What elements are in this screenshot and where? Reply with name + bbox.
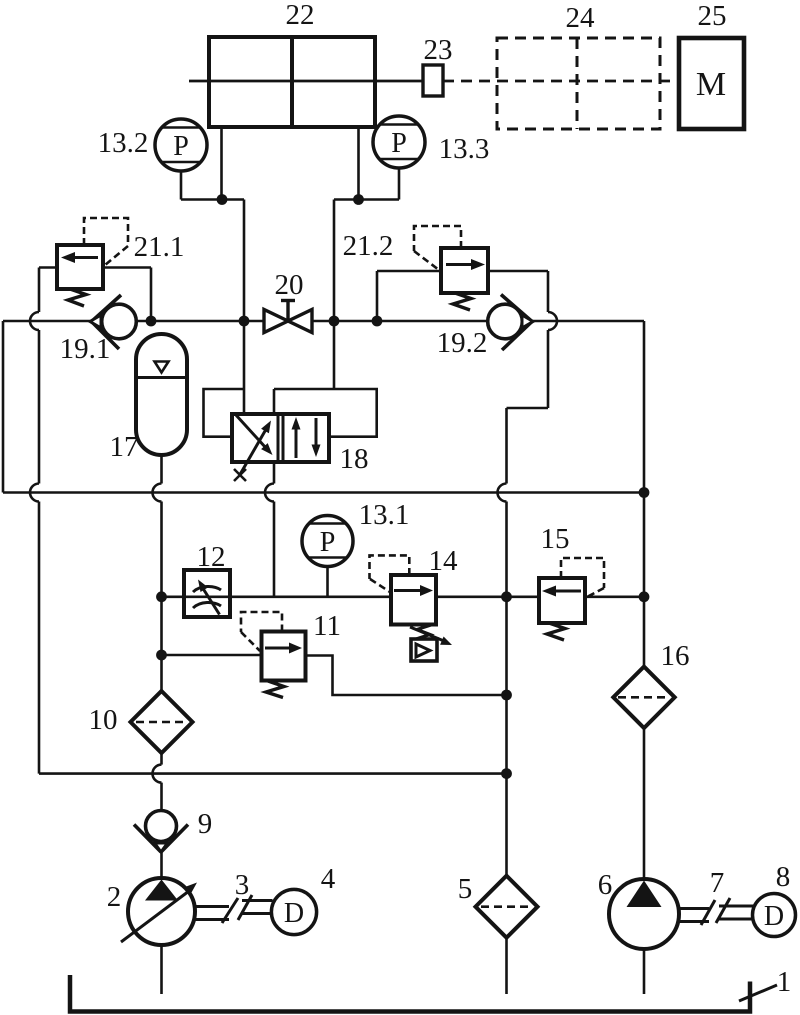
wire cylinder right port to valve 18 port B <box>274 127 359 414</box>
svg-text:13.1: 13.1 <box>359 499 410 531</box>
node bus-right <box>639 591 650 602</box>
svg-text:19.2: 19.2 <box>437 327 488 359</box>
wire bus to valve 11 <box>162 654 262 657</box>
svg-text:D: D <box>284 898 304 929</box>
wire valve 18 right side loop <box>329 389 377 437</box>
svg-text:5: 5 <box>458 873 473 905</box>
svg-text:22: 22 <box>286 0 315 31</box>
shutoff valve 20 <box>264 301 312 333</box>
svg-text:12: 12 <box>197 541 226 573</box>
relief valve 11 <box>262 632 306 698</box>
check valve 9 <box>134 811 188 879</box>
node 11-right <box>501 690 512 701</box>
svg-text:3: 3 <box>235 869 250 901</box>
svg-text:16: 16 <box>661 640 690 672</box>
svg-text:M: M <box>696 66 726 103</box>
check valve 19.2 <box>488 295 533 351</box>
pressure gauge 13.2 <box>155 119 222 200</box>
pilot line 21.1 (dashed) <box>84 218 128 265</box>
wire cylinder left port to valve 18 port A <box>222 127 245 414</box>
svg-text:25: 25 <box>698 0 727 32</box>
svg-text:9: 9 <box>198 808 213 840</box>
throttle valve 12 <box>184 570 230 617</box>
pilot line 11 (dashed) <box>241 612 282 651</box>
svg-text:P: P <box>391 128 407 159</box>
drive motor 8 <box>753 894 796 937</box>
shaft 3 <box>195 895 273 923</box>
svg-text:D: D <box>764 901 784 932</box>
accumulator 17 <box>136 334 187 455</box>
svg-text:6: 6 <box>598 869 613 901</box>
node lower-bus-right <box>501 768 512 779</box>
svg-text:13.2: 13.2 <box>98 127 149 159</box>
svg-text:20: 20 <box>275 269 304 301</box>
left frame wire <box>2 321 5 493</box>
pressure gauge 13.3 <box>359 116 426 200</box>
return bus (middle) <box>3 491 644 494</box>
wire valve 18 left side loop <box>204 389 245 437</box>
drive motor 4 <box>271 889 316 934</box>
svg-text:14: 14 <box>429 545 459 577</box>
proportional relief valve 14 <box>391 575 452 661</box>
svg-text:1: 1 <box>777 966 792 998</box>
main bus (upper) <box>3 320 644 323</box>
wire 21.2 right port down to pump column <box>488 271 557 408</box>
closed port marker x <box>234 469 246 481</box>
wire accumulator stem / pump 2 column <box>153 455 162 811</box>
wire valve 11 right port to middle column <box>306 656 507 696</box>
directional valve 18 <box>232 414 329 475</box>
variable pump 2 <box>121 878 197 994</box>
node A1 <box>217 194 228 205</box>
cylinder 22 <box>189 37 423 127</box>
shaft 7 <box>679 898 754 925</box>
wire 21.1 left port down to return bus <box>30 268 57 774</box>
svg-text:21.1: 21.1 <box>134 231 185 263</box>
svg-text:23: 23 <box>424 34 453 66</box>
node B1 <box>353 194 364 205</box>
pump 6 <box>609 879 679 949</box>
wire 21.2 left port to bus <box>377 271 441 321</box>
node bus-left <box>156 591 167 602</box>
relief valve 21.1 <box>57 245 103 306</box>
wire right column <box>643 321 646 994</box>
svg-text:2: 2 <box>107 881 122 913</box>
wire valve 18 bottom port down to valve bus <box>265 462 274 597</box>
wire 21.1 right port to bus <box>103 268 151 322</box>
node return-right <box>639 487 650 498</box>
node 21.1-bus <box>146 316 157 327</box>
svg-text:4: 4 <box>321 863 336 895</box>
svg-text:P: P <box>173 131 189 162</box>
node cyl-right on bus <box>329 316 340 327</box>
filter 10 <box>131 691 193 753</box>
svg-text:11: 11 <box>313 610 341 642</box>
svg-text:13.3: 13.3 <box>439 133 490 165</box>
pilot line 15 (dashed) <box>561 558 604 597</box>
check valve 19.1 <box>90 295 136 349</box>
node cyl-left on bus <box>239 316 250 327</box>
node 11-left <box>156 650 167 661</box>
tank 1 <box>70 975 777 1012</box>
svg-text:15: 15 <box>541 523 570 555</box>
node 21.2-bus <box>372 316 383 327</box>
svg-text:10: 10 <box>89 704 118 736</box>
pressure gauge 13.1 <box>302 516 353 597</box>
svg-text:7: 7 <box>710 867 725 899</box>
relief valve 21.2 <box>441 248 488 310</box>
wire middle pump column <box>498 408 507 994</box>
relief valve 15 <box>539 578 585 640</box>
svg-text:8: 8 <box>776 861 791 893</box>
coupling 23 <box>423 65 443 96</box>
valve bus (through 12,14,15) <box>162 595 645 598</box>
pilot line 21.2 (dashed) <box>414 226 461 270</box>
lower return bus <box>39 772 507 775</box>
svg-text:19.1: 19.1 <box>60 333 111 365</box>
svg-text:18: 18 <box>340 443 369 475</box>
motor M 25 <box>679 38 744 129</box>
dashed shaft line <box>443 80 679 83</box>
filter 5 <box>476 876 538 938</box>
pilot line 14 (dashed) <box>370 555 410 592</box>
svg-text:21.2: 21.2 <box>343 230 394 262</box>
filter 16 <box>613 667 674 728</box>
svg-text:24: 24 <box>566 2 596 34</box>
gearbox 24 (dashed) <box>497 38 660 129</box>
svg-text:17: 17 <box>110 431 139 463</box>
svg-text:P: P <box>320 527 336 558</box>
node bus-mid <box>501 591 512 602</box>
